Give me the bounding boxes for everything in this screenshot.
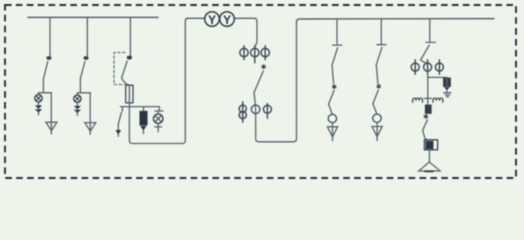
F3 lamp branch corner wire (158, 107, 160, 111)
delta base center bar (425, 170, 433, 172)
F3 arrester body (filled) (140, 112, 147, 125)
feeder 5 outgoing arrow triangle (372, 127, 382, 137)
F3 link blade to fuse (122, 78, 130, 86)
star marker below transformer (424, 114, 428, 118)
F2 chevron arrester top (74, 106, 81, 110)
main wire below CT row (427, 71, 429, 104)
F2 indicator branch wire (76, 93, 78, 95)
F3 wire through fuse to bar (128, 85, 130, 106)
arrester body rect (444, 78, 451, 86)
F3 lamp upper terminal bar (155, 110, 163, 112)
feeder 5 instrument circle (373, 114, 381, 122)
svg-text:Y: Y (208, 13, 216, 27)
wire below blade F2 (79, 79, 81, 93)
F1 lamp stub (38, 102, 40, 105)
F2 outgoing arrow triangle (85, 123, 96, 132)
metering column bottom wire to right bus riser (256, 22, 297, 142)
wire below blade F1 (42, 79, 44, 93)
link wire into CT row (421, 60, 428, 63)
feeder 1 switch blade (43, 62, 47, 80)
feeder 2 switch contact dot (83, 56, 88, 60)
meter M1 circle (205, 12, 220, 27)
F3 distribution bar (120, 106, 159, 108)
feeder 2 drop wire (86, 17, 88, 56)
node bar F1 (39, 92, 52, 94)
CT row T left circle (411, 60, 419, 74)
feeder 5 mid wire (376, 65, 378, 83)
arrester centerline (446, 78, 448, 86)
feeder 5 wire to circle (373, 104, 377, 114)
F2 chevron tail (76, 113, 78, 115)
feeder 5 load switch blade (373, 90, 379, 104)
feeder 3 drop wire (129, 17, 131, 55)
feeder 5 top contact bar (377, 44, 386, 46)
wire below meter box (428, 150, 430, 162)
meter box rect (424, 140, 437, 150)
delta load triangle (419, 162, 441, 171)
F3 lamp wire (157, 111, 159, 114)
F1 indicator branch wire (38, 93, 40, 95)
bus left section (28, 16, 158, 18)
F3 earth-switch branch wire (121, 107, 123, 112)
transformer bay top contact bar (426, 41, 436, 43)
wire into PT row (254, 93, 256, 114)
feeder 4 outgoing wire (332, 123, 334, 141)
arrester ground bar 3 (447, 96, 449, 98)
feeder 2 switch blade (80, 62, 85, 79)
meter M2 circle (220, 12, 235, 27)
star marker at metering switch (262, 65, 266, 69)
F3 fuse rectangle (126, 85, 133, 103)
node bar F2 (77, 92, 90, 94)
feeder 4 instrument circle (328, 114, 336, 122)
feeder 4 wire to circle (329, 104, 333, 114)
F3 earth-switch blade (118, 112, 121, 124)
F1 chevron arrester top (35, 105, 42, 109)
meter box filled cell (426, 142, 433, 149)
feeder 3 switch blade (122, 61, 128, 78)
arrester ground bar 1 (444, 92, 451, 94)
LV switch blade (423, 120, 428, 131)
feeder 4 outgoing arrow triangle (327, 127, 337, 137)
F3 output wire down and right to metering riser (129, 18, 188, 143)
feeder 1 drop wire (49, 17, 51, 56)
PT row2 middle circle (251, 105, 260, 114)
svg-text:Y: Y (223, 13, 231, 27)
F3 earth-switch lower wire (117, 125, 119, 131)
arrester branch wire (428, 76, 447, 79)
feeder 1 switch contact dot (46, 56, 51, 60)
F2 outgoing wire (89, 93, 91, 135)
metering column descend wire (254, 18, 257, 46)
F1 lamp circle with X (35, 95, 42, 102)
F3 lamp tail (157, 123, 159, 131)
dashed border frame (5, 5, 516, 178)
CT row1 left circle (240, 46, 248, 60)
wire into meter box (423, 130, 427, 140)
feeder 4 load switch blade (329, 91, 335, 105)
transformer core block (filled) (426, 105, 432, 113)
F2 lamp stub (76, 102, 78, 105)
F3 lamp circle with X (154, 114, 163, 123)
arrester arrowhead (444, 87, 449, 90)
arrester ground bar 2 (445, 94, 449, 96)
F2 chevron arrester bottom (74, 110, 81, 114)
F3 arrow tail (117, 135, 119, 137)
metering jumper wire (187, 17, 256, 19)
feeder 3 cabinet dashed box (114, 53, 125, 85)
feeder 4 star marker (332, 85, 336, 89)
F3 arrester tail (142, 131, 144, 134)
transformer bay disconnector blade (421, 45, 430, 60)
F3 lamp lower terminal bar (155, 126, 162, 128)
feeder 4 top contact bar (333, 44, 342, 46)
F2 lamp circle with X (74, 95, 81, 102)
feeder 5 disconnector blade (376, 47, 382, 65)
feeder 4 disconnector blade (332, 48, 338, 66)
feeder 3 switch contact dot (127, 56, 132, 60)
F3 arrester arrowhead (140, 126, 146, 131)
transformer right winding humps (433, 98, 443, 102)
transformer primary crossbar (424, 97, 431, 99)
PT row2 right circle (263, 104, 271, 119)
F1 chevron arrester bottom (35, 109, 42, 113)
F1 chevron tail (38, 113, 40, 115)
CT row T middle circle (424, 60, 432, 74)
F3 arrester branch stub (143, 107, 145, 112)
metering switch blade (254, 71, 263, 93)
transformer left winding humps (413, 98, 423, 102)
F1 outgoing wire (50, 93, 52, 134)
transformer bay drop wire (429, 19, 431, 42)
feeder 4 drop wire (336, 19, 338, 45)
CT row T right circle (435, 60, 443, 74)
feeder 4 mid wire (332, 66, 334, 84)
feeder 5 outgoing wire (376, 122, 378, 140)
feeder 5 star marker (377, 84, 381, 88)
CT row1 right circle (261, 46, 269, 60)
CT row1 middle circle (251, 46, 259, 63)
bus right section (297, 19, 495, 22)
feeder 5 drop wire (380, 19, 382, 44)
F1 outgoing arrow triangle (46, 122, 57, 131)
F3 earth-switch arrowhead (116, 130, 122, 135)
PT row2 left double circle (239, 102, 246, 122)
